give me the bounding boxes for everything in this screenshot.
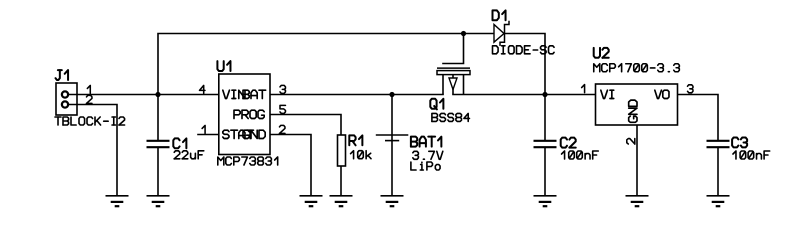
capacitor C2 plates [534, 141, 557, 147]
pin text U2 VO [655, 90, 669, 98]
label J1 value [55, 117, 125, 125]
pin number U1-2 [280, 125, 285, 133]
transistor Q1 BSS84 (P-MOSFET) symbol [437, 68, 470, 94]
wire U2 pin3 VO to C3 top [678, 95, 719, 140]
battery BAT1 plates [376, 135, 409, 141]
label BAT1 voltage [413, 151, 443, 159]
wire U1 pin2 VSS to ground [270, 135, 311, 196]
ground C2 [534, 196, 557, 206]
wire C1 top drop from node [157, 95, 159, 140]
pin number J1-2 [87, 95, 92, 103]
pin text U1 PROG [234, 110, 264, 118]
wire C2 top drop from VIN node [544, 95, 546, 140]
wire Q1 gate lead from top rail [443, 34, 464, 64]
ground J1 pin2 [106, 196, 129, 206]
ground C1 [147, 196, 170, 206]
pin number U1-5 [280, 105, 285, 113]
pin number U2-3 [688, 85, 693, 93]
label C1 value [174, 151, 204, 159]
label R1 name [349, 135, 362, 145]
capacitor C3 plates [707, 141, 730, 147]
label C2 value [562, 151, 599, 159]
pin number J1-1 [87, 85, 90, 93]
wire J1 pin2 to ground [65, 105, 117, 196]
resistor R1 body [338, 135, 346, 166]
label U1 value [218, 157, 278, 165]
wire C3 bottom to ground [717, 148, 719, 195]
capacitor C1 plates [147, 141, 170, 147]
diode D1 schottky symbol [494, 21, 509, 46]
label BAT1 type [411, 162, 440, 170]
node junction Q1 gate tap on top rail [461, 31, 466, 36]
ground U1 VSS [300, 196, 323, 206]
label BAT1 name [411, 137, 441, 147]
node junction C1 / top rail tap [155, 92, 160, 97]
connector J1 TBLOCK-I2 [56, 83, 77, 115]
pin text U1 BAT [243, 90, 266, 98]
pin number U1-4 [200, 85, 205, 93]
pin text U1 VIN [223, 90, 245, 98]
ground R1 [330, 196, 353, 206]
pin text U2 VI [601, 90, 614, 98]
label C3 value [733, 151, 770, 159]
wire C1 bottom to ground [157, 148, 159, 195]
pin number U2-2 rotated [627, 139, 635, 144]
label C3 name [732, 137, 747, 147]
label D1 value [493, 46, 555, 54]
wire U1 pin5 PROG to R1 top [270, 115, 341, 136]
pin number U1-3 [280, 85, 285, 93]
wire J1 pin1 to U1 VIN pin4 [65, 94, 219, 96]
node junction BAT1 tap [389, 92, 394, 97]
IC U1 MCP73831 body [219, 74, 270, 155]
pin number U1-1 [202, 125, 205, 133]
label R1 value [351, 151, 371, 159]
wire R1 bottom to ground [340, 166, 342, 195]
wire U1 pin1 STAT stub [198, 134, 219, 136]
wire D1 cathode to right corner down to VIN node [505, 34, 545, 95]
regulator U2 MCP1700-3.3 body [596, 84, 678, 125]
label U2 name [594, 48, 609, 58]
ground BAT1 [381, 196, 404, 206]
pin text U1 STAT [223, 130, 254, 138]
wire C2 bottom to ground [544, 148, 546, 195]
wire U1 pin3 BAT to Q1 left stub [270, 94, 443, 96]
label Q1 name [430, 99, 443, 110]
label U2 value [594, 64, 680, 72]
node junction VIN / C2 tap [542, 92, 547, 97]
ground U2 [626, 196, 649, 206]
label J1 name [55, 70, 68, 80]
pin number U2-1 [582, 85, 585, 93]
wire Q1 middle stub to U2 pin1 VI [453, 94, 596, 96]
label U1 name [217, 61, 230, 71]
ground C3 [707, 196, 730, 206]
wire U2 GND pin down to ground [636, 125, 638, 195]
wire top rail: C1 node up and across to D1 anode [158, 34, 494, 95]
pin text U2 GND rotated [629, 100, 637, 122]
wire BAT1 lead from node through plates to ground [391, 95, 393, 196]
pin text U1 GND [243, 130, 265, 138]
label C1 name [173, 138, 186, 148]
label Q1 value [432, 113, 470, 121]
label D1 name [493, 10, 506, 20]
label C2 name [561, 138, 576, 148]
